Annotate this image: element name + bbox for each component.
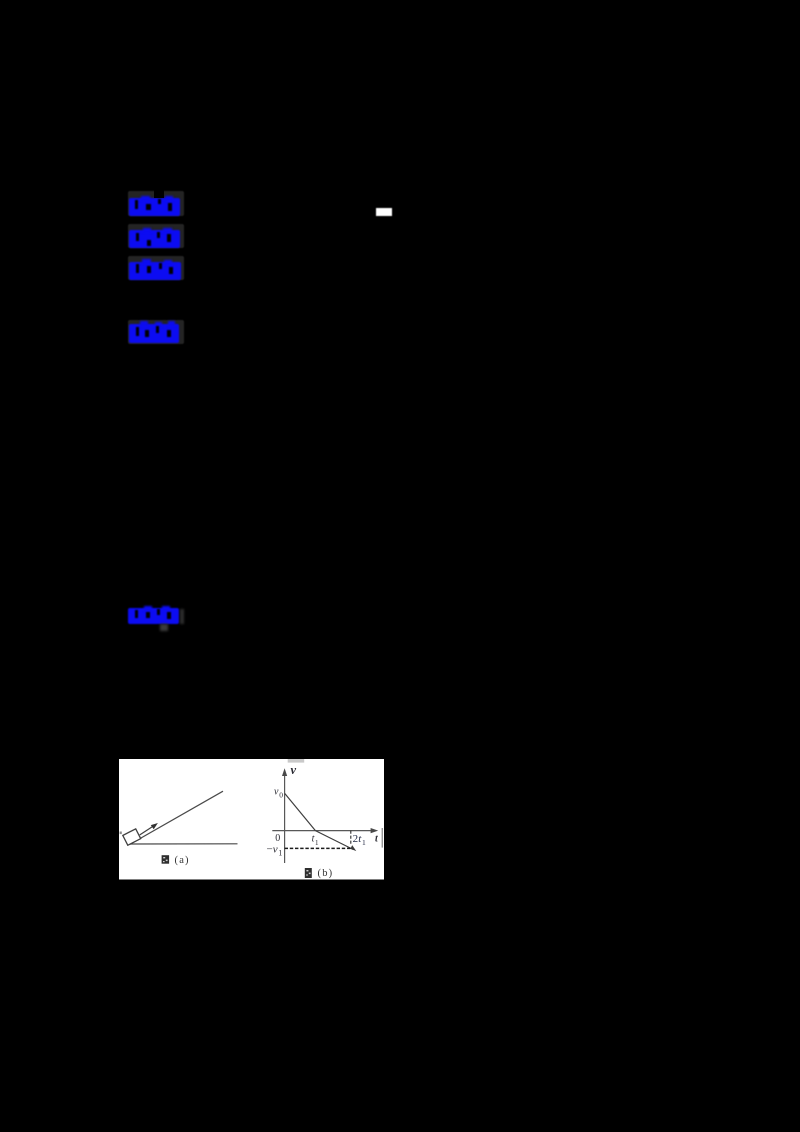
label 5 right smudge: [180, 609, 184, 624]
svg-text:−: −: [267, 844, 273, 856]
fig a: velocity arrow: [140, 826, 154, 835]
svg-text:v: v: [291, 763, 297, 777]
svg-text:0: 0: [279, 791, 283, 800]
svg-text:1: 1: [362, 838, 366, 847]
label 4 【解答】 blue blob: [129, 324, 180, 343]
svg-text:1: 1: [315, 839, 319, 847]
fig b: 图 glyph: [305, 868, 312, 878]
svg-text:v: v: [273, 844, 278, 856]
fig a: 图 glyph: [162, 855, 170, 864]
fig b: right edge bar: [381, 828, 383, 848]
label 3 【分析】 blue blob: [129, 262, 181, 281]
label box 2 halo: [128, 224, 184, 248]
fig a: left edge tick: [120, 832, 122, 835]
svg-text:(a): (a): [175, 855, 190, 866]
svg-text:0: 0: [275, 833, 280, 844]
fig b: dashed -v1 line: [285, 847, 351, 849]
svg-text:(b): (b): [318, 868, 334, 879]
fig b: dashed tick at 2t1: [350, 831, 352, 846]
label 1 top notch: [154, 190, 164, 198]
label 2 【专题】 blue blob: [129, 230, 180, 248]
figure panel (white box): [119, 759, 384, 880]
svg-text:v: v: [274, 787, 279, 798]
fig b: v axis: [284, 772, 286, 863]
fig a: incline line: [130, 791, 223, 844]
label 5 descender smudge: [160, 624, 168, 631]
label 1 【考点】 blue blob: [129, 198, 180, 216]
fig b: plotted line seg2: [315, 831, 353, 850]
label 5 【点评】 blue blob (no halo): [128, 608, 180, 625]
svg-text:1: 1: [278, 849, 282, 858]
label box 1 halo: [128, 191, 184, 216]
fig b: top smudge: [288, 759, 305, 763]
fig a: block on incline: [123, 829, 141, 845]
fig b: t axis: [272, 830, 374, 832]
label box 4 halo: [128, 320, 184, 344]
fig b: plotted line seg1: [285, 794, 316, 831]
white dash (考点 line): [376, 208, 392, 217]
fig a: ground line: [128, 843, 238, 845]
label box 3 halo: [128, 256, 184, 281]
